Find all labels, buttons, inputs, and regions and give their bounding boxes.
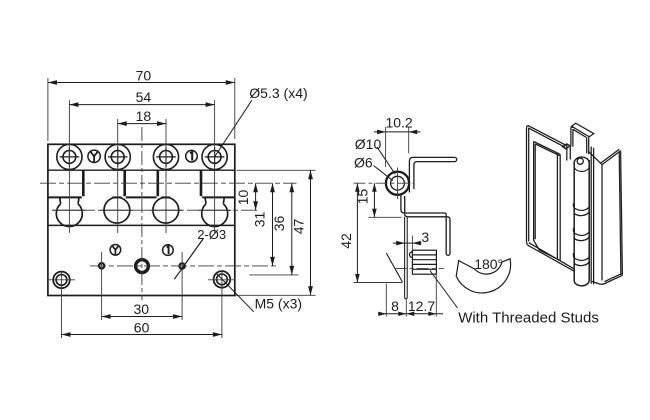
knuckle top line <box>48 169 235 171</box>
lower sheet <box>401 194 450 255</box>
top screw holes (4x boss + screw) <box>57 144 227 169</box>
dim 30 <box>102 314 183 319</box>
back plate <box>591 147 593 285</box>
stud block <box>410 250 437 274</box>
svg-text:8: 8 <box>391 298 399 314</box>
flag window <box>571 127 573 147</box>
svg-text:30: 30 <box>134 301 150 317</box>
certification symbols <box>88 150 197 255</box>
centerlines <box>40 100 316 338</box>
svg-text:M5 (x3): M5 (x3) <box>255 296 302 312</box>
dim 54 <box>69 102 214 107</box>
svg-text:3: 3 <box>421 229 429 245</box>
svg-text:Ø6: Ø6 <box>354 155 373 171</box>
dim 70 <box>48 78 235 141</box>
svg-text:54: 54 <box>136 89 152 105</box>
svg-text:10.2: 10.2 <box>385 114 412 130</box>
svg-text:2-Ø3: 2-Ø3 <box>197 227 226 242</box>
plate outline <box>48 144 235 295</box>
leaders <box>174 100 253 311</box>
svg-text:Ø10: Ø10 <box>355 136 382 152</box>
frame bevel inner lip <box>534 142 540 251</box>
svg-text:36: 36 <box>271 216 287 232</box>
side dims <box>354 127 458 317</box>
diagonal <box>386 253 402 282</box>
right side verticals near barrel <box>557 153 560 261</box>
svg-text:60: 60 <box>134 319 150 335</box>
dim 18 <box>118 121 166 126</box>
svg-text:70: 70 <box>136 68 152 84</box>
knuckle bottom line segments <box>48 196 235 198</box>
svg-text:Ø5.3 (x4): Ø5.3 (x4) <box>249 85 307 101</box>
dim 60 <box>62 332 222 337</box>
svg-text:10: 10 <box>235 190 251 206</box>
180 deg rotation arrow <box>456 259 510 293</box>
side centerlines <box>354 168 445 269</box>
upper sheet <box>409 157 456 192</box>
studs (4x circles with necks) <box>56 197 227 226</box>
dim 10 right <box>253 183 258 210</box>
front frame panel outer <box>527 126 530 246</box>
svg-text:47: 47 <box>290 219 306 235</box>
dim 36 <box>289 183 294 275</box>
dim 31 <box>270 183 275 266</box>
barrel pictorial <box>574 160 589 282</box>
knuckle gap bars <box>83 170 201 196</box>
svg-text:With Threaded Studs: With Threaded Studs <box>458 310 599 327</box>
svg-text:42: 42 <box>338 233 354 249</box>
dimension lines <box>48 78 313 337</box>
svg-text:15: 15 <box>355 189 371 205</box>
bottom row holes <box>53 260 230 289</box>
svg-text:180°: 180° <box>474 256 503 272</box>
dim 47 <box>308 170 313 295</box>
svg-text:31: 31 <box>251 212 267 228</box>
barrel <box>386 172 409 195</box>
svg-text:12.7: 12.7 <box>408 298 435 314</box>
svg-text:18: 18 <box>136 108 152 124</box>
long plate <box>405 217 408 299</box>
bend line <box>48 224 235 226</box>
tongue under flag <box>567 144 571 160</box>
